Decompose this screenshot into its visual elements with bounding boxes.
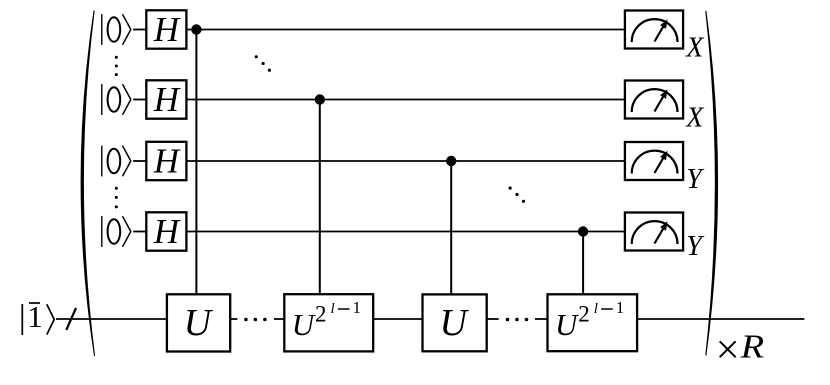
measurement meter row 1: [625, 11, 683, 49]
ket |1bar> label bottom row: [22, 299, 54, 335]
cdots between U gate 2 and U^2^l-1 gate 2: [506, 318, 529, 322]
wire row 4 from H gate to meter: [186, 231, 625, 233]
U^2^l-1 gate box 2: [548, 294, 638, 351]
control dot row 2: [315, 94, 325, 104]
svg-text:U: U: [439, 302, 469, 344]
ket |0> label row 4: [102, 216, 131, 247]
svg-text:H: H: [153, 80, 181, 119]
H gate row 3: [146, 141, 186, 180]
wire stub before U^2^l-1 gate 1: [274, 318, 284, 320]
bus slash marker on bottom wire: [66, 308, 76, 330]
svg-text:2: 2: [315, 302, 327, 327]
control vertical wire row 1 to U gate: [195, 30, 197, 295]
svg-text:X: X: [685, 103, 704, 134]
ket |0> label row 2: [102, 84, 131, 115]
wire stub before U^2^l-1 gate 2: [535, 318, 548, 320]
H gate row 1: [146, 10, 186, 49]
svg-text:1: 1: [353, 298, 362, 317]
svg-text:1: 1: [616, 298, 625, 317]
svg-text:R: R: [739, 328, 764, 365]
wire stub after U gate 2: [487, 318, 499, 320]
H gate row 2: [146, 80, 186, 119]
svg-text:l: l: [331, 301, 335, 317]
control dot row 3: [446, 156, 456, 166]
control vertical wire row 4 to U gate: [582, 232, 584, 295]
svg-text:U: U: [555, 307, 580, 342]
U^2^l-1 gate box 1: [284, 294, 373, 351]
wire row 1 from H gate to meter: [186, 29, 625, 31]
control vertical wire row 3 to U gate: [450, 161, 452, 294]
right parenthesis of ensemble: [705, 11, 718, 356]
bottom wire from U^2^l-1 gate 2 to right edge: [637, 318, 804, 320]
control dot row 4: [578, 226, 588, 236]
wire row 2 from H gate to meter: [186, 99, 625, 101]
svg-text:H: H: [153, 10, 181, 49]
U gate box 2: [423, 294, 487, 351]
svg-text:l: l: [594, 301, 598, 317]
repetition label xR: [720, 328, 765, 365]
diagonal dots between control rows 3-4: [509, 187, 526, 203]
vertical dots between ket rows 1-2: [115, 56, 118, 76]
vertical dots between ket rows 3-4: [115, 187, 118, 209]
cdots between U gate 1 and U^2^l-1 gate 1: [244, 318, 267, 322]
wire stub after U gate 1: [230, 318, 237, 320]
wire row 3 from ket to H gate: [133, 160, 146, 162]
measurement meter row 2: [625, 81, 683, 119]
U gate box 1: [167, 294, 230, 351]
svg-text:U: U: [184, 302, 214, 344]
wire row 2 from ket to H gate: [133, 99, 146, 101]
wire row 4 from ket to H gate: [133, 231, 146, 233]
svg-text:2: 2: [578, 302, 590, 327]
svg-text:H: H: [153, 212, 181, 251]
wire row 1 from ket to H gate: [133, 29, 146, 31]
wire row 3 from H gate to meter: [186, 160, 625, 162]
ket |0> label row 3: [102, 146, 131, 177]
control dot row 1: [191, 24, 201, 34]
H gate row 4: [146, 212, 186, 251]
svg-text:X: X: [685, 33, 704, 64]
bottom wire from ket to U gate: [56, 318, 167, 320]
measurement meter row 3: [625, 142, 683, 180]
measurement meter row 4: [625, 213, 683, 251]
left parenthesis of ensemble: [81, 10, 96, 356]
diagonal dots between control rows 1-2: [255, 55, 271, 72]
ket |0> label row 1: [102, 14, 131, 45]
wire between U^2^l-1 gate 1 and U gate 2: [373, 318, 422, 320]
control vertical wire row 2 to U gate: [319, 100, 321, 295]
svg-text:U: U: [292, 307, 317, 342]
svg-text:H: H: [153, 141, 181, 180]
svg-text:1: 1: [27, 299, 43, 334]
